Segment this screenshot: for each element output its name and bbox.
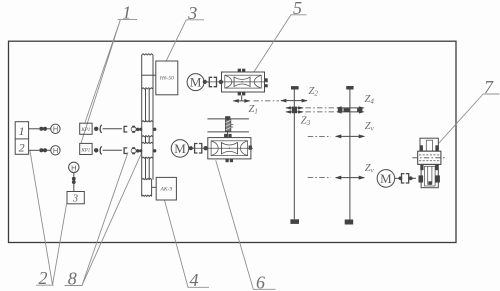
- callout 8: [65, 152, 143, 289]
- wire to AK-9: [152, 186, 157, 188]
- gearbox 5 right flange: [265, 78, 268, 81]
- callout 2: [30, 151, 67, 288]
- coupling after KP2: [94, 148, 98, 152]
- wire coupling to brake unit: [413, 177, 417, 179]
- coupling M3: [399, 174, 413, 183]
- handwheel H1: [51, 124, 60, 134]
- gearbox 6 housing: [192, 138, 253, 159]
- shaft disc M1: [203, 80, 207, 84]
- svg-text:КР1: КР1: [80, 148, 90, 153]
- handwheel H3: [69, 162, 79, 172]
- svg-text:3: 3: [72, 194, 78, 205]
- disc at gearbox 6 input: [203, 146, 207, 150]
- callout 1: [81, 3, 137, 144]
- column shaft lines upper: [142, 89, 153, 122]
- shaft A: [290, 86, 299, 224]
- jaw clutch row2: [124, 147, 142, 154]
- callout 4: [165, 200, 210, 290]
- svg-text:КР1: КР1: [80, 128, 90, 133]
- callout 6: [216, 160, 276, 291]
- mesh dash-dot pair: [306, 108, 335, 112]
- callout 5: [254, 0, 307, 72]
- jaw clutch row1: [124, 126, 142, 133]
- wheel above gearbox 6: [207, 116, 249, 137]
- coupling after KP1: [94, 127, 98, 131]
- box AK-9: [156, 177, 176, 200]
- wire row2 to handwheel: [47, 149, 51, 151]
- wire row1 to handwheel: [47, 128, 51, 130]
- arrow line at shaft A: [280, 99, 308, 103]
- handwheel H2: [51, 146, 60, 156]
- KP box row1: [80, 123, 92, 134]
- column shaft lines mid: [142, 137, 153, 144]
- KP box row2: [80, 143, 92, 154]
- callout 7: [439, 77, 500, 144]
- shaft disc M2: [189, 146, 193, 150]
- svg-text:АК-9: АК-9: [160, 187, 173, 193]
- wire to Nb-50: [142, 74, 156, 76]
- svg-text:Н: Н: [71, 163, 76, 172]
- svg-text:6: 6: [256, 272, 265, 291]
- gearbox 6 bottom flange: [226, 159, 229, 162]
- dash-dot Z1 link: [254, 100, 280, 102]
- svg-text:2: 2: [19, 140, 25, 154]
- loading unit 7 lower housing: [419, 164, 440, 187]
- coupling discs row2: [39, 148, 43, 152]
- wire M3 to coupling: [395, 177, 399, 179]
- shaft B: [345, 86, 354, 225]
- loading unit 7 bearing block: [412, 151, 446, 164]
- wire row2 to clutch: [103, 149, 122, 151]
- loading unit 7 upper housing: [420, 138, 439, 151]
- gear on shaft A: [285, 106, 303, 113]
- gear pair on shaft B: [336, 106, 364, 113]
- sliding block row1: [139, 121, 156, 137]
- gearbox 5 bottom flange: [238, 92, 241, 95]
- wire M1 to coupling: [207, 81, 209, 83]
- gearbox 6 right flange: [249, 146, 252, 150]
- callout 3: [166, 3, 204, 62]
- gearbox 5 top flange: [238, 69, 241, 72]
- control box 1/2: [15, 122, 28, 155]
- coupling M2: [195, 144, 202, 154]
- svg-text:Нб-50: Нб-50: [159, 75, 174, 82]
- svg-text:Н: Н: [53, 125, 58, 134]
- wire row1 box to coupling: [29, 128, 39, 130]
- svg-text:М: М: [380, 171, 392, 186]
- svg-text:М: М: [174, 141, 186, 156]
- arrow line Zv lower: [308, 176, 365, 180]
- feed column top block: [142, 54, 153, 89]
- box Nb-50: [156, 61, 178, 95]
- arrow line Zv upper: [308, 134, 365, 138]
- wire row2 box to coupling: [29, 149, 39, 151]
- column bottom block: [142, 178, 152, 196]
- disc at gearbox1 input: [219, 80, 223, 84]
- motor M2: [171, 140, 189, 158]
- coupling discs row1: [39, 127, 43, 131]
- arrow line Z1 under gearbox 5: [233, 99, 251, 103]
- wire M2 to coupling: [193, 147, 195, 149]
- coupling below H3: [73, 173, 75, 177]
- sliding block row2: [139, 142, 156, 158]
- svg-text:М: М: [190, 75, 202, 90]
- wire row1 to clutch: [103, 128, 122, 130]
- stub below gearbox 5: [241, 95, 243, 100]
- motor M3: [377, 170, 395, 188]
- box 3: [67, 192, 84, 205]
- svg-text:1: 1: [19, 124, 25, 138]
- column shaft lines lower: [142, 158, 153, 179]
- svg-text:Н: Н: [53, 146, 58, 155]
- frame border: [9, 41, 457, 242]
- motor M1: [187, 74, 204, 91]
- gearbox 5 housing: [204, 72, 268, 92]
- coupling M1: [209, 77, 216, 86]
